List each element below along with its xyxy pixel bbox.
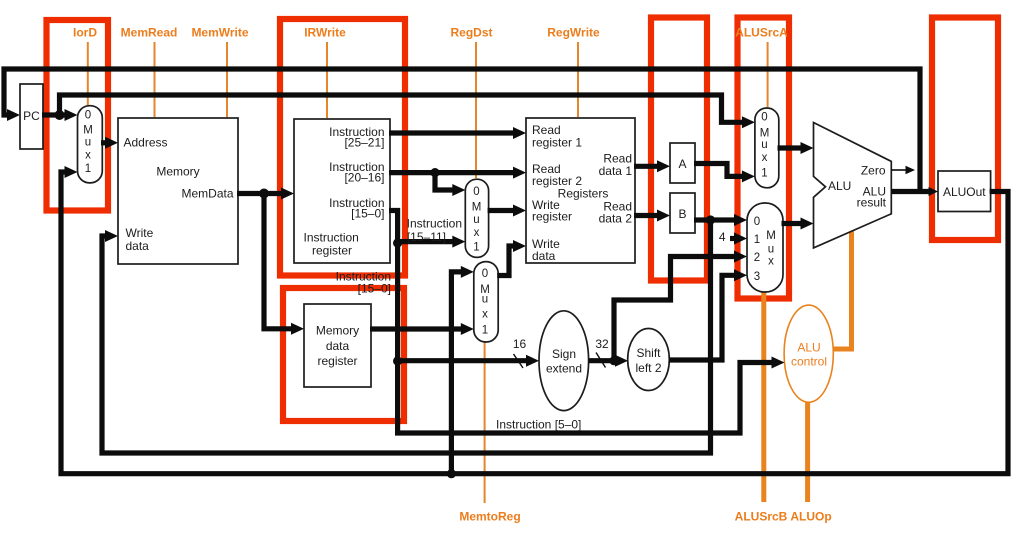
wire Zero output	[891, 166, 915, 175]
svg-text:data 2: data 2	[599, 212, 633, 226]
wire PC output	[42, 109, 78, 121]
highlight box A and B registers	[651, 18, 707, 281]
control signal ALUOp	[790, 401, 831, 524]
wire MemData to IR	[237, 188, 294, 200]
svg-text:0: 0	[482, 268, 488, 280]
wire MemtoReg mux to Write data	[497, 240, 526, 276]
svg-text:MemRead: MemRead	[121, 26, 178, 40]
mux ALUSrcB	[747, 203, 783, 292]
label Instruction [15-0]	[336, 270, 391, 296]
svg-text:register 1: register 1	[532, 136, 582, 150]
svg-text:x: x	[482, 309, 488, 321]
svg-text:[20–16]: [20–16]	[344, 171, 384, 185]
svg-text:data: data	[126, 239, 150, 253]
svg-text:left 2: left 2	[635, 361, 661, 375]
svg-text:Zero: Zero	[861, 164, 886, 178]
svg-text:Instruction [5–0]: Instruction [5–0]	[496, 418, 581, 432]
control label IRWrite	[304, 26, 346, 119]
svg-text:1: 1	[761, 168, 767, 180]
control label MemRead	[121, 26, 178, 118]
ALU U1	[814, 123, 892, 248]
mux MemtoReg	[474, 262, 498, 342]
wire PC to ALUSrcA input 0	[60, 95, 755, 128]
wire ALUSrcA mux to ALU	[778, 142, 814, 154]
wire IR[15-0] to sign extend	[398, 355, 539, 367]
wire MemData to MDR	[264, 194, 304, 335]
wire sign extend to ALUSrcB input 2	[614, 251, 747, 361]
svg-text:extend: extend	[546, 362, 582, 376]
control signal ALUSrcB	[735, 290, 788, 524]
instruction register IR	[294, 119, 390, 263]
svg-text:x: x	[762, 152, 768, 164]
wire Read data 1 to A	[634, 160, 670, 172]
register file	[526, 118, 635, 263]
memory data register MDR	[304, 304, 371, 387]
svg-text:IorD: IorD	[73, 26, 97, 40]
wire Instruction[15-11] to RegDst 1	[398, 236, 466, 248]
svg-text:u: u	[85, 137, 91, 149]
svg-text:u: u	[768, 244, 774, 256]
ALU control U-ALUctl	[784, 305, 833, 402]
wire IorD mux output to Address	[101, 137, 118, 149]
svg-text:u: u	[761, 139, 767, 151]
memory unit	[118, 118, 238, 264]
svg-text:0: 0	[85, 110, 91, 122]
highlight box ALUOut register	[932, 18, 998, 241]
svg-text:A: A	[678, 157, 686, 171]
highlight box Instruction register (IRWrite)	[280, 19, 405, 276]
svg-text:ALU: ALU	[828, 179, 851, 193]
highlight box ALUSrcA/ALUSrcB muxes	[738, 18, 790, 299]
svg-text:32: 32	[595, 337, 609, 351]
svg-text:4: 4	[719, 230, 726, 244]
svg-text:x: x	[768, 256, 774, 268]
svg-text:ALUSrcB: ALUSrcB	[735, 510, 788, 524]
wire IR[25-21] to Read register 1	[389, 127, 526, 139]
svg-text:1: 1	[754, 234, 760, 246]
control label ALUSrcA	[735, 26, 788, 108]
svg-text:ALUOp: ALUOp	[790, 510, 831, 524]
svg-text:B: B	[678, 207, 686, 221]
svg-text:Memory: Memory	[316, 324, 359, 338]
svg-text:MemData: MemData	[181, 187, 233, 201]
svg-text:x: x	[474, 227, 480, 239]
svg-text:u: u	[473, 214, 479, 226]
wire ALUOut feedback loop	[61, 166, 1008, 478]
svg-text:register: register	[312, 244, 352, 258]
bus width 32 marker	[595, 337, 609, 368]
wire sign extend to shift left 2	[589, 355, 629, 367]
constant 4 to ALUSrcB input 1	[719, 230, 747, 245]
wire IR[20-16] branch to RegDst 0	[435, 173, 465, 196]
wire Read data 2 to B	[634, 210, 670, 222]
wire ALUOut feedback to MemtoReg 0	[451, 266, 473, 474]
svg-text:[15–0]: [15–0]	[358, 282, 391, 296]
svg-text:data 1: data 1	[599, 164, 633, 178]
svg-text:16: 16	[513, 337, 527, 351]
svg-text:control: control	[791, 355, 827, 369]
svg-text:[25–21]: [25–21]	[344, 136, 384, 150]
svg-text:ALUSrcA: ALUSrcA	[735, 26, 788, 40]
svg-text:M: M	[766, 230, 776, 242]
svg-text:2: 2	[754, 252, 760, 264]
svg-text:IRWrite: IRWrite	[304, 26, 346, 40]
svg-text:data: data	[532, 249, 556, 263]
svg-text:Sign: Sign	[552, 347, 576, 361]
svg-text:Instruction: Instruction	[304, 231, 359, 245]
svg-text:Write: Write	[126, 226, 154, 240]
svg-text:u: u	[482, 294, 488, 306]
wire IR[20-16] to Read register 2	[389, 167, 526, 179]
svg-text:M: M	[83, 125, 93, 137]
control label IorD	[73, 26, 97, 106]
svg-text:3: 3	[754, 271, 760, 283]
register A	[670, 143, 695, 183]
svg-text:data: data	[326, 339, 350, 353]
svg-text:MemWrite: MemWrite	[191, 26, 248, 40]
svg-text:1: 1	[473, 242, 479, 254]
svg-text:M: M	[472, 202, 482, 214]
sign extend unit	[539, 311, 589, 411]
highlight box Memory data register	[283, 288, 404, 421]
register ALUOut	[938, 171, 991, 212]
wire B to ALUSrcB input 0	[694, 214, 747, 226]
svg-text:MemtoReg: MemtoReg	[459, 510, 520, 524]
mux IorD	[78, 106, 103, 183]
svg-text:PC: PC	[23, 109, 40, 123]
wire ALUSrcB mux to ALU	[782, 218, 814, 230]
svg-text:[15–11]: [15–11]	[407, 230, 446, 244]
control label MemWrite	[191, 26, 248, 118]
wire B to Memory write data	[102, 220, 711, 453]
svg-text:0: 0	[754, 216, 760, 228]
svg-text:RegDst: RegDst	[450, 26, 492, 40]
wire ALU control to ALU (orange)	[833, 229, 852, 349]
register B	[670, 193, 695, 233]
register PC	[20, 84, 43, 149]
label Instruction [15-11]	[407, 217, 462, 245]
svg-text:Address: Address	[124, 136, 168, 150]
svg-text:Registers: Registers	[558, 187, 609, 201]
svg-text:1: 1	[85, 163, 91, 175]
svg-text:0: 0	[761, 112, 767, 124]
svg-text:ALU: ALU	[797, 341, 820, 355]
control label MemtoReg	[459, 340, 520, 524]
wire ALU result to ALUOut	[891, 187, 938, 196]
shift left 2 unit	[628, 329, 670, 391]
svg-text:register: register	[532, 210, 572, 224]
wire MDR to MemtoReg 1	[370, 323, 474, 335]
highlight box IorD mux	[47, 20, 109, 211]
svg-text:result: result	[857, 196, 887, 210]
svg-text:Memory: Memory	[156, 165, 199, 179]
svg-text:[15–0]: [15–0]	[351, 207, 384, 221]
wire IR[15-0] vertical	[389, 211, 785, 434]
svg-text:Shift: Shift	[636, 346, 661, 360]
wire RegDst mux to Write register	[488, 205, 526, 217]
wire shift left 2 to ALUSrcB input 3	[669, 269, 747, 360]
wire A to ALUSrcA input 1	[694, 164, 755, 183]
svg-text:1: 1	[482, 325, 488, 337]
mux RegDst	[465, 179, 488, 257]
control label RegWrite	[547, 26, 600, 118]
svg-text:register: register	[317, 354, 357, 368]
wire ALU result to PC (top loop)	[4, 69, 920, 192]
svg-text:Instruction: Instruction	[407, 217, 462, 231]
bus width 16 marker	[513, 337, 527, 368]
svg-text:M: M	[760, 128, 770, 140]
svg-text:0: 0	[473, 186, 479, 198]
label Instruction [5-0]	[496, 418, 581, 432]
control label RegDst	[450, 26, 492, 179]
svg-text:RegWrite: RegWrite	[547, 26, 600, 40]
svg-text:ALUOut: ALUOut	[943, 185, 986, 199]
svg-text:x: x	[85, 150, 91, 162]
mux ALUSrcA	[755, 108, 779, 188]
